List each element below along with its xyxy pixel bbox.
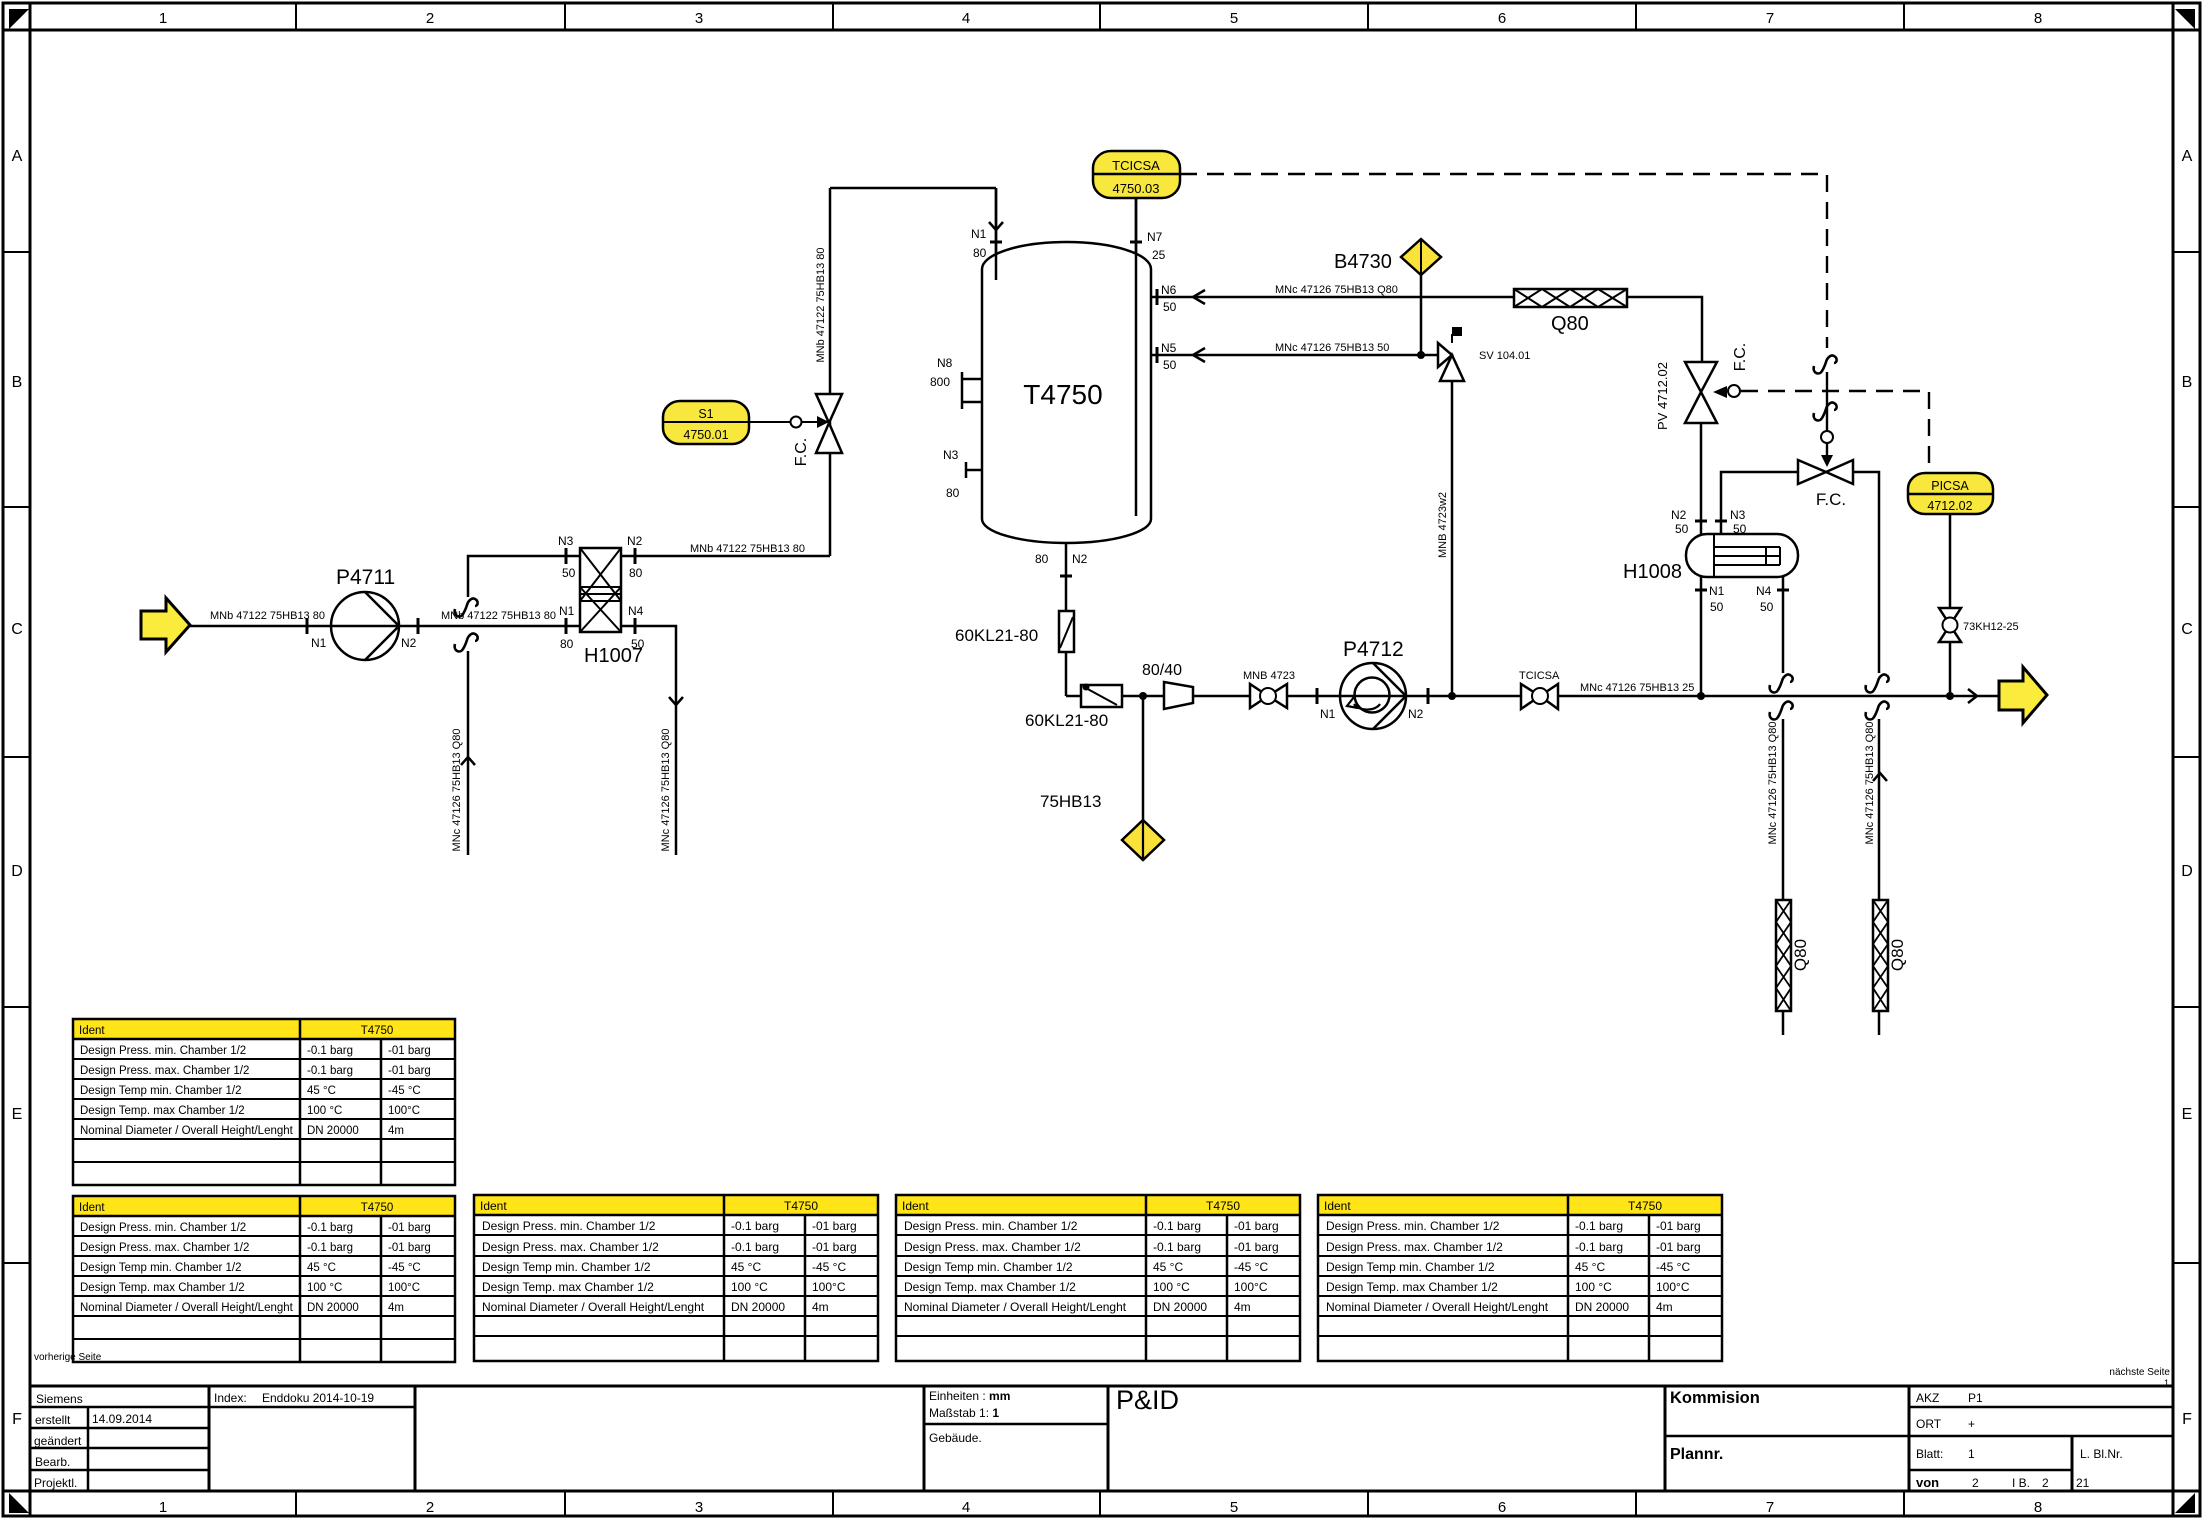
outlet stream arrow <box>1999 667 2047 723</box>
wire PV positioner signal (dashed) <box>1741 391 1929 474</box>
instrument bubble TCICSA 4750.03 <box>1093 151 1180 198</box>
wire H1008 N3 to FC valve <box>1721 472 1798 534</box>
svg-text:C: C <box>11 621 23 638</box>
wire PICSA to 73KH12-25 <box>1949 514 1952 696</box>
svg-text:B: B <box>12 374 23 391</box>
svg-text:von: von <box>1916 1475 1939 1490</box>
tank T4750 <box>982 242 1151 543</box>
pump P4711 <box>307 566 418 660</box>
node junction N5/B4730 <box>1417 351 1425 359</box>
wire branch to 75HB13 <box>1142 696 1145 820</box>
svg-text:N2: N2 <box>1072 552 1088 566</box>
svg-text:Index:: Index: <box>214 1391 247 1405</box>
svg-text:MNc 47126 75HB13 Q80: MNc 47126 75HB13 Q80 <box>451 729 463 852</box>
svg-text:1: 1 <box>159 1499 167 1516</box>
svg-text:80/40: 80/40 <box>1142 662 1182 679</box>
frame zone letters left <box>11 148 23 1428</box>
equipment data table T4750 bottom 1 <box>73 1196 455 1362</box>
wire main discharge line <box>1066 695 1999 698</box>
H1007 nozzle ticks and labels <box>441 534 805 651</box>
pipe break on FC signal <box>1814 402 1837 420</box>
svg-text:H1008: H1008 <box>1623 561 1682 583</box>
svg-text:AKZ: AKZ <box>1916 1391 1939 1405</box>
svg-text:N2: N2 <box>627 534 643 548</box>
svg-text:Projektl.: Projektl. <box>34 1476 77 1490</box>
svg-text:3: 3 <box>695 1499 703 1516</box>
svg-text:P4712: P4712 <box>1343 638 1404 661</box>
svg-text:2: 2 <box>426 1499 434 1516</box>
svg-text:PV 4712.02: PV 4712.02 <box>1655 362 1670 430</box>
svg-text:4: 4 <box>962 1499 970 1516</box>
wire tank N1 drop <box>995 188 998 280</box>
svg-text:F.C.: F.C. <box>793 438 810 466</box>
pump P4712 <box>1317 638 1428 729</box>
svg-text:3: 3 <box>695 10 703 27</box>
wire tank N2 bottom outlet <box>1065 542 1068 696</box>
svg-text:80: 80 <box>560 637 574 651</box>
pipe break on N3 utility line below main <box>455 633 478 651</box>
svg-text:80: 80 <box>946 486 960 500</box>
svg-text:14.09.2014: 14.09.2014 <box>92 1412 152 1426</box>
wire TCICSA signal line (dashed) <box>1180 174 1827 348</box>
svg-text:7: 7 <box>1766 10 1774 27</box>
node junction SV riser / main line <box>1448 692 1456 700</box>
inlet stream arrow <box>141 598 325 652</box>
svg-text:L. Bl.Nr.: L. Bl.Nr. <box>2080 1447 2123 1461</box>
svg-text:N1: N1 <box>559 604 575 618</box>
tank N3 nozzle <box>943 448 982 500</box>
svg-text:Blatt:: Blatt: <box>1916 1447 1943 1461</box>
svg-text:MNb 47122 75HB13 80: MNb 47122 75HB13 80 <box>690 543 805 555</box>
svg-text:MNB 4723w2: MNB 4723w2 <box>1437 492 1449 558</box>
wire B4730 branch <box>1420 275 1423 355</box>
H1008 nozzle ticks and labels <box>1671 508 1789 614</box>
svg-text:Kommision: Kommision <box>1670 1389 1760 1407</box>
pipe break on N3 utility line above main <box>455 598 478 616</box>
hand valve 73KH12-25 <box>1939 608 2019 642</box>
wire tank N5 line <box>1151 354 1440 357</box>
bottom filter Q80 right <box>1873 900 1907 1011</box>
svg-text:N2: N2 <box>1671 508 1687 522</box>
svg-text:P&ID: P&ID <box>1116 1385 1179 1415</box>
svg-text:50: 50 <box>1710 600 1724 614</box>
svg-text:80: 80 <box>1035 552 1049 566</box>
svg-text:A: A <box>12 148 23 165</box>
svg-text:C: C <box>2181 621 2193 638</box>
tank N8 nozzle <box>930 356 982 409</box>
svg-text:5: 5 <box>1230 10 1238 27</box>
svg-text:8: 8 <box>2034 1499 2042 1516</box>
svg-text:+: + <box>1968 1417 1975 1431</box>
svg-text:Q80: Q80 <box>1551 313 1589 335</box>
svg-text:50: 50 <box>1675 522 1689 536</box>
svg-text:S1: S1 <box>698 407 713 421</box>
svg-text:MNb 47122 75HB13 80: MNb 47122 75HB13 80 <box>815 248 827 363</box>
frame zone letters right <box>2181 148 2193 1428</box>
flow arrow up on FC outlet line <box>1873 773 1887 781</box>
svg-text:60KL21-80: 60KL21-80 <box>955 626 1038 645</box>
wire FC valve signal stub <box>1826 372 1828 431</box>
field device B4730 <box>1334 239 1441 275</box>
svg-text:N4: N4 <box>628 604 644 618</box>
svg-text:N8: N8 <box>937 356 953 370</box>
svg-text:Einheiten : mm: Einheiten : mm <box>929 1389 1010 1403</box>
svg-text:N3: N3 <box>558 534 574 548</box>
svg-text:Gebäude.: Gebäude. <box>929 1431 982 1445</box>
svg-text:N6: N6 <box>1161 283 1177 297</box>
svg-text:D: D <box>11 863 23 880</box>
valve S1 4750.01 with actuator bubble <box>663 248 842 467</box>
svg-text:Q80: Q80 <box>1791 939 1810 971</box>
reducer 80/40 <box>1142 662 1193 709</box>
svg-text:6: 6 <box>1498 1499 1506 1516</box>
svg-text:5: 5 <box>1230 1499 1238 1516</box>
svg-text:1: 1 <box>159 10 167 27</box>
svg-text:50: 50 <box>1163 300 1177 314</box>
svg-text:2: 2 <box>426 10 434 27</box>
svg-text:N2: N2 <box>401 636 417 650</box>
wire tank N6 line <box>1151 297 1702 362</box>
svg-text:A: A <box>2182 148 2193 165</box>
svg-text:D: D <box>2181 863 2193 880</box>
svg-text:50: 50 <box>1760 600 1774 614</box>
outlet flow arrow chevron <box>1968 689 1977 703</box>
svg-text:Bearb.: Bearb. <box>35 1455 70 1469</box>
equipment data table T4750 bottom 4 <box>1318 1195 1722 1361</box>
heat exchanger H1007 <box>580 548 643 667</box>
svg-text:Maßstab 1: 1: Maßstab 1: 1 <box>929 1406 999 1420</box>
svg-text:N1: N1 <box>1320 707 1336 721</box>
svg-text:N4: N4 <box>1756 584 1772 598</box>
svg-text:7: 7 <box>1766 1499 1774 1516</box>
svg-text:N1: N1 <box>1709 584 1725 598</box>
svg-text:25: 25 <box>1152 248 1166 262</box>
svg-text:B4730: B4730 <box>1334 251 1392 273</box>
svg-text:F.C.: F.C. <box>1816 490 1846 509</box>
wire FC utility line lower <box>1878 719 1881 1035</box>
svg-text:N1: N1 <box>971 227 987 241</box>
node junction H1008 N1 / main <box>1697 692 1705 700</box>
svg-text:N3: N3 <box>943 448 959 462</box>
svg-text:4750.03: 4750.03 <box>1113 181 1160 196</box>
svg-text:Plannr.: Plannr. <box>1670 1446 1723 1463</box>
inline filter Q80 <box>1514 289 1627 335</box>
FC valve positioner circle <box>1821 431 1833 443</box>
svg-text:geändert: geändert <box>34 1434 82 1448</box>
svg-text:MNc 47126 75HB13 25: MNc 47126 75HB13 25 <box>1580 682 1694 694</box>
bottom filter Q80 left <box>1776 900 1810 1011</box>
svg-text:B: B <box>2182 374 2193 391</box>
svg-text:SV 104.01: SV 104.01 <box>1479 350 1530 362</box>
svg-text:F: F <box>12 1411 22 1428</box>
svg-text:MNB 4723: MNB 4723 <box>1243 670 1295 682</box>
heat exchanger H1008 <box>1623 534 1798 583</box>
svg-text:1: 1 <box>1968 1447 1975 1461</box>
svg-text:erstellt: erstellt <box>35 1413 71 1427</box>
control valve F.C. (bypass) <box>1798 460 1853 509</box>
svg-text:ORT: ORT <box>1916 1417 1942 1431</box>
svg-text:6: 6 <box>1498 10 1506 27</box>
svg-text:F: F <box>2182 1411 2192 1428</box>
svg-text:nächste Seite: nächste Seite <box>2109 1367 2170 1378</box>
svg-text:75HB13: 75HB13 <box>1040 792 1101 811</box>
svg-text:50: 50 <box>1163 358 1177 372</box>
strainer 60KL21-80 horizontal <box>1025 684 1122 731</box>
svg-text:8: 8 <box>2034 10 2042 27</box>
wire top header to tank N1 <box>830 187 996 190</box>
svg-text:MNc 47126 75HB13 50: MNc 47126 75HB13 50 <box>1275 342 1389 354</box>
svg-text:800: 800 <box>930 375 950 389</box>
wire H1008 N4 drop <box>1782 577 1785 673</box>
tank N6 line fittings <box>1157 283 1398 314</box>
svg-text:MNc 47126 75HB13 Q80: MNc 47126 75HB13 Q80 <box>660 729 672 852</box>
node junction 73KH line / main <box>1946 692 1954 700</box>
svg-text:PICSA: PICSA <box>1931 479 1969 493</box>
wire SV 104.01 riser <box>1451 381 1454 696</box>
pipe break on TCICSA signal <box>1814 355 1837 373</box>
instrument bubble PICSA 4712.02 <box>1908 473 1993 514</box>
svg-text:2: 2 <box>2042 1476 2049 1490</box>
pipe breaks on H1008 N4 line <box>1770 674 1793 692</box>
svg-text:N5: N5 <box>1161 341 1177 355</box>
tank internal dip tube (redraw over tank fill) <box>1135 198 1138 516</box>
svg-text:MNc 47126 75HB13 Q80: MNc 47126 75HB13 Q80 <box>1275 284 1398 296</box>
svg-text:73KH12-25: 73KH12-25 <box>1963 621 2019 633</box>
svg-text:TCICSA: TCICSA <box>1519 670 1560 682</box>
svg-text:50: 50 <box>562 566 576 580</box>
flow arrow down on N4 utility line <box>669 697 683 705</box>
frame zone numbers top <box>159 10 2042 27</box>
svg-text:N3: N3 <box>1730 508 1746 522</box>
svg-text:T4750: T4750 <box>1023 379 1102 410</box>
wire tank internal dip tube <box>1135 198 1138 516</box>
svg-text:80: 80 <box>629 566 643 580</box>
svg-text:50: 50 <box>1733 522 1747 536</box>
svg-text:50: 50 <box>631 637 645 651</box>
svg-text:4: 4 <box>962 10 970 27</box>
FC valve arrow <box>1821 455 1833 467</box>
svg-text:E: E <box>2182 1106 2193 1123</box>
wire N4 utility line lower <box>1782 719 1785 1035</box>
equipment data table T4750 top <box>73 1019 455 1185</box>
svg-text:Q80: Q80 <box>1888 939 1907 971</box>
control valve PV 4712.02 <box>1655 343 1749 430</box>
svg-text:MNc 47126 75HB13 Q80: MNc 47126 75HB13 Q80 <box>1767 722 1779 845</box>
svg-text:TCICSA: TCICSA <box>1112 158 1160 173</box>
equipment data table T4750 bottom 3 <box>896 1195 1300 1361</box>
svg-text:P1: P1 <box>1968 1391 1983 1405</box>
wire H1008 N1 drop <box>1700 577 1703 696</box>
equipment data table T4750 bottom 2 <box>474 1195 878 1361</box>
svg-text:4712.02: 4712.02 <box>1927 499 1972 513</box>
wire H1007 N3 utility line <box>468 556 580 597</box>
tank N5 line fittings <box>1157 341 1389 372</box>
svg-text:4750.01: 4750.01 <box>683 428 728 442</box>
svg-text:2: 2 <box>1972 1476 1979 1490</box>
svg-text:P4711: P4711 <box>336 566 395 589</box>
title block <box>30 1386 2173 1491</box>
valve TCICSA <box>1519 670 1694 709</box>
safety valve SV 104.01 <box>1437 327 1530 558</box>
svg-text:N1: N1 <box>311 636 327 650</box>
wire main suction line (inlet to H1007 N1) <box>190 625 580 628</box>
wire riser to top header <box>829 188 832 556</box>
wire FC valve outlet drop <box>1853 472 1879 673</box>
svg-text:I B.: I B. <box>2012 1476 2030 1490</box>
strainer 60KL21-80 vertical <box>955 611 1074 652</box>
svg-text:F.C.: F.C. <box>1732 343 1749 371</box>
wire H1007 N2 outlet line <box>621 555 830 558</box>
title block texts <box>34 1385 2123 1490</box>
svg-text:21: 21 <box>2076 1476 2090 1490</box>
tank N7 nozzle <box>1130 230 1166 262</box>
svg-text:Siemens: Siemens <box>36 1392 83 1406</box>
tank N2 nozzle labels <box>1035 552 1088 576</box>
svg-text:80: 80 <box>973 246 987 260</box>
svg-text:MNc 47126 75HB13 Q80: MNc 47126 75HB13 Q80 <box>1864 722 1876 845</box>
field connection 75HB13 diamond <box>1040 792 1164 860</box>
svg-text:N7: N7 <box>1147 230 1163 244</box>
tank N1 nozzle <box>971 188 1003 280</box>
svg-text:60KL21-80: 60KL21-80 <box>1025 711 1108 730</box>
svg-text:E: E <box>12 1106 23 1123</box>
wire H1007 N4 utility line <box>621 626 676 855</box>
wire PV valve to H1008 N2 <box>1700 423 1703 534</box>
valve MNB 4723 <box>1243 670 1295 708</box>
svg-text:Enddoku 2014-10-19: Enddoku 2014-10-19 <box>262 1391 374 1405</box>
node junction 75HB13 branch <box>1139 692 1147 700</box>
pipe breaks on FC outlet line <box>1866 674 1889 692</box>
svg-text:N2: N2 <box>1408 707 1424 721</box>
frame zone numbers bottom <box>159 1499 2042 1516</box>
flow arrow up on N3 utility line <box>461 757 475 765</box>
